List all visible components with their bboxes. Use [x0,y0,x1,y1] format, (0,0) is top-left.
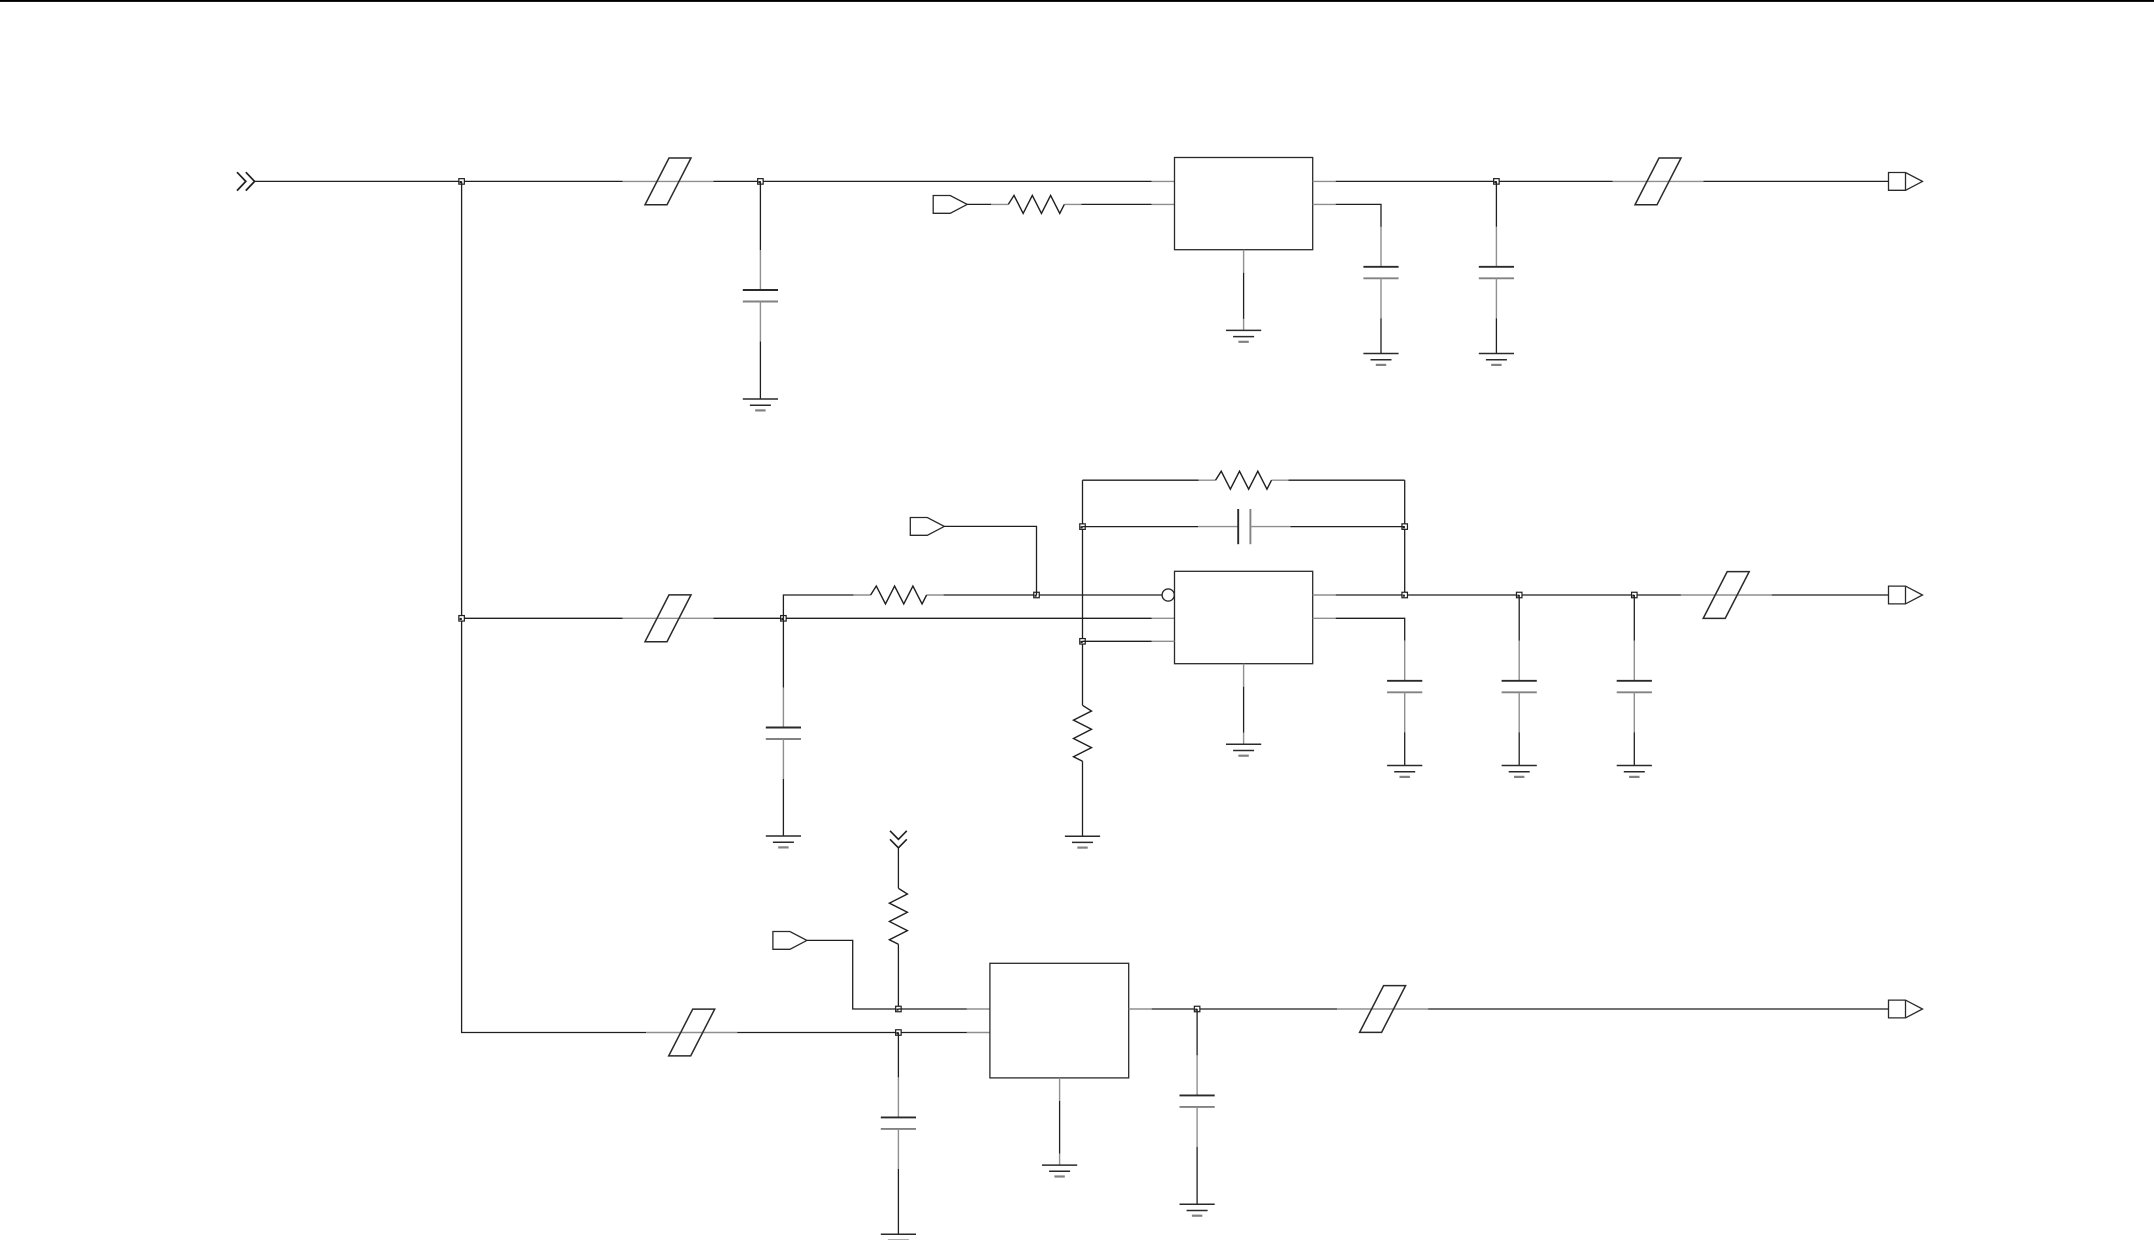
node EN2 junction J6 [1034,592,1040,598]
node EN3 junction J10 [896,1006,902,1012]
wire U3 GND [1059,1101,1061,1154]
node trunk junction J4 [459,616,465,622]
pin U1 VIN [1152,180,1175,182]
node C4 junction J5 [781,616,787,622]
pin U2 VIN [1152,617,1175,619]
wire R1 to U1 EN [1081,203,1151,205]
pin U3 VOUT [1129,1008,1152,1010]
ferrite bead FB5 [646,1009,737,1056]
ground for U1 [1226,330,1261,341]
wire FB4 to output port [1772,594,1889,596]
port EN2 tag [910,518,944,536]
port EN1 tag [933,196,967,214]
pin U1 EN [1152,203,1175,205]
wire R2 to U2 EN bubble [944,594,1163,596]
node feedback tap J7 [1402,592,1408,598]
resistor R5 pull-up [889,888,907,944]
wire FB5 to U3 VIN [737,1032,967,1034]
port VOUT2 tag [1889,586,1923,604]
node feedback junction J15 [1080,639,1086,645]
port EN3 tag [773,932,807,950]
wire mid rail to FB3 [462,617,623,619]
inverting bubble on U2 EN pin [1162,589,1174,601]
pin gnd stub U2 [1243,733,1245,745]
wire input rail to FB1 [255,180,623,182]
resistor R3 feedback [1199,471,1289,489]
ferrite bead FB2 [1613,158,1704,205]
capacitor C4 [766,618,801,836]
wire feedback right vertical [1404,480,1406,595]
regulator U3 [990,963,1129,1078]
pin U3 VIN [967,1032,990,1034]
ferrite bead FB3 [623,595,714,642]
pin U1 GND [1243,250,1245,273]
pin U2 NR [1313,617,1336,619]
pin gnd stub U1 [1243,319,1245,331]
node C6 junction J8 [1516,592,1522,598]
wire trunk upper [461,181,463,618]
node feedback junction J13 [1080,524,1086,530]
regulator U2 [1175,571,1313,663]
ground for C4 [766,836,801,847]
wire R3 to right leg [1289,479,1405,481]
ground for C1 [743,399,778,410]
wire FB3 to U2 VIN [714,617,1152,619]
ground for C10 [1180,1204,1215,1215]
capacitor C8 feedback (horizontal) [1083,509,1405,544]
power port arrow (pull-up supply) [890,831,907,848]
ground for U3 [1042,1165,1077,1176]
wire FB6 to output port [1428,1008,1888,1010]
pin U1 BYP [1313,203,1336,205]
port VOUT3 tag [1889,1000,1923,1018]
wire R4 to ground [1082,761,1084,836]
capacitor C5 [1387,641,1422,766]
capacitor C9 [881,1033,916,1235]
ground for C5 [1387,766,1422,777]
node C1 junction J2 [758,179,764,185]
node feedback junction J14 [1402,524,1408,530]
node output junction J3 [1494,179,1500,185]
pin U2 VOUT [1313,594,1336,596]
wire U1 GND [1243,273,1245,319]
capacitor C10 [1180,1009,1215,1204]
node input junction J1 [459,179,465,185]
capacitor C2 [1363,227,1398,354]
regulator U1 [1175,158,1313,250]
capacitor C3 [1479,181,1514,353]
wire U1 BYP to C2 [1336,204,1381,227]
input port connector (double chevron) [237,172,255,190]
wire J10 to U3 EN [898,1008,967,1010]
wire feedback left vertical [1082,480,1084,705]
node C7 junction J9 [1632,592,1638,598]
wire J15 to U2 FB pin [1083,640,1152,642]
resistor R4 divider [1074,705,1092,761]
wire EN3 tag to J10 [807,940,899,1009]
port VOUT1 tag [1889,173,1923,191]
ground for U2 [1226,744,1261,755]
wire FB2 to output port [1704,180,1889,182]
wire to feedback resistor R3 [1083,479,1199,481]
wire U2 VOUT rail [1336,594,1681,596]
pin U3 GND [1059,1078,1061,1101]
wire U1 VOUT rail [1336,180,1613,182]
pin U3 EN [967,1008,990,1010]
ground for C3 [1479,354,1514,365]
ferrite bead FB6 [1337,986,1428,1033]
pin gnd stub U3 [1059,1154,1061,1165]
wire trunk lower to FB5 [462,618,647,1032]
wire U2 NR to C5 [1336,618,1405,641]
capacitor C1 [743,181,778,399]
ground for R4 [1065,836,1100,847]
resistor R1 [991,195,1081,213]
capacitor C6 [1502,595,1537,766]
node C10 junction J12 [1194,1006,1200,1012]
wire EN1 tag to R1 [967,203,991,205]
ground for C6 [1502,766,1537,777]
capacitor C7 [1617,595,1652,766]
wire J5 up to R2 [783,595,853,618]
node C9 junction J11 [896,1030,902,1036]
wire EN2 tag to J6 [944,526,1036,595]
wire R5 to J10 [897,944,899,1009]
resistor R2 [854,586,944,604]
wire U3 VOUT rail [1152,1008,1337,1010]
ground for C9 [881,1234,916,1240]
ferrite bead FB4 [1681,572,1772,619]
ground for C7 [1617,766,1652,777]
ferrite bead FB1 [623,158,714,205]
pin U1 VOUT [1313,180,1336,182]
wire supply to R5 [897,848,899,889]
ground for C2 [1363,354,1398,365]
wire FB1 to U1 VIN [714,180,1152,182]
wire U2 GND [1243,687,1245,733]
pin U2 GND [1243,664,1245,687]
pin U2 FB [1152,640,1175,642]
